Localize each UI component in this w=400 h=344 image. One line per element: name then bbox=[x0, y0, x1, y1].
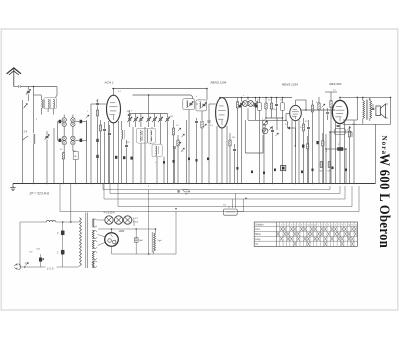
wire bbox=[345, 149, 347, 184]
trimmer capacitor bbox=[253, 98, 258, 121]
resistor box bbox=[73, 152, 78, 160]
text RENS 1254 bbox=[282, 82, 298, 86]
power transformer T6 primary bbox=[74, 218, 81, 268]
capacitor block bbox=[316, 141, 318, 144]
svg-text:4 V 0,35 A: 4 V 0,35 A bbox=[104, 212, 115, 215]
text ZF bbox=[29, 192, 50, 196]
wire bbox=[330, 132, 352, 184]
wire bbox=[62, 222, 64, 267]
capacitor bbox=[57, 250, 64, 254]
text W 600 L Oberon bbox=[377, 154, 393, 249]
svg-text:6: 6 bbox=[335, 225, 336, 227]
svg-text:11: 11 bbox=[351, 225, 353, 227]
svg-text:0,1: 0,1 bbox=[257, 100, 260, 102]
svg-text:1M: 1M bbox=[280, 100, 283, 102]
loudspeaker bbox=[376, 104, 388, 118]
wire bbox=[353, 120, 355, 184]
resistor bbox=[263, 124, 265, 184]
wire bbox=[73, 145, 76, 151]
svg-text:470pF: 470pF bbox=[272, 108, 278, 111]
wire gang top bbox=[130, 113, 168, 115]
tube V2 legs bbox=[217, 126, 227, 184]
wire bbox=[325, 92, 337, 95]
output transformer T5 bbox=[363, 100, 372, 120]
tube V4 RES964 bbox=[332, 100, 347, 123]
svg-text:0,1: 0,1 bbox=[118, 91, 121, 93]
wire bbox=[247, 108, 249, 120]
connector B bbox=[178, 189, 191, 195]
capacitor bbox=[271, 126, 274, 184]
svg-text:3: 3 bbox=[325, 225, 326, 227]
wire bbox=[64, 115, 73, 118]
capacitor block bbox=[96, 155, 98, 158]
svg-text:1: 1 bbox=[318, 225, 319, 227]
wire bbox=[148, 108, 150, 114]
wire bbox=[64, 127, 73, 137]
dial lamp 1 bbox=[105, 216, 113, 224]
wire bbox=[34, 87, 58, 100]
wire bbox=[363, 97, 370, 100]
antenna plug connector bbox=[19, 85, 22, 88]
wire harness 5 bbox=[60, 184, 359, 212]
capacitor blocks L2 bbox=[59, 120, 83, 142]
resistor bbox=[318, 97, 320, 184]
trimmer capacitor bbox=[26, 89, 31, 94]
wire bbox=[326, 134, 334, 184]
capacitor bbox=[337, 125, 340, 126]
electrolytic capacitor bbox=[334, 148, 346, 151]
diode detector bbox=[263, 120, 273, 131]
svg-text:2 2 0: 2 2 0 bbox=[46, 266, 54, 270]
svg-text:6: 6 bbox=[294, 225, 295, 227]
tuning capacitor C6 bbox=[158, 114, 163, 128]
wire bbox=[58, 139, 87, 141]
svg-text:8μF: 8μF bbox=[139, 240, 143, 242]
text 470pF bbox=[272, 108, 278, 111]
wire bbox=[47, 109, 49, 112]
wire bbox=[46, 131, 48, 184]
resistor bbox=[62, 153, 64, 160]
wire bbox=[58, 122, 87, 141]
wire bbox=[98, 220, 135, 226]
wire bbox=[155, 229, 157, 233]
wire bbox=[58, 121, 87, 123]
wire anode top bbox=[112, 88, 207, 90]
fuse bbox=[37, 248, 45, 268]
svg-text:ACH 1: ACH 1 bbox=[104, 81, 114, 85]
mains switch bbox=[24, 263, 29, 268]
wire bbox=[148, 190, 150, 255]
svg-text:11: 11 bbox=[311, 225, 313, 227]
screen cap bbox=[103, 122, 106, 184]
svg-text:c: c bbox=[243, 95, 244, 97]
resistor bbox=[322, 133, 324, 184]
wire bbox=[151, 127, 153, 128]
svg-text:0,1: 0,1 bbox=[333, 90, 336, 92]
tuning capacitor C7 bbox=[165, 114, 170, 128]
tube V3 legs bbox=[292, 119, 299, 184]
svg-text:8: 8 bbox=[342, 225, 343, 227]
grid leak box bbox=[335, 129, 346, 135]
capacitor block bbox=[115, 156, 132, 159]
svg-text:RENS 1294: RENS 1294 bbox=[211, 80, 227, 84]
coil L0 bbox=[41, 100, 45, 109]
potentiometer bbox=[223, 194, 243, 216]
wire bbox=[112, 246, 177, 254]
bus bbox=[13, 183, 376, 185]
wire bbox=[332, 109, 335, 111]
table labels bbox=[255, 223, 264, 245]
resistor bbox=[236, 98, 238, 184]
wire bbox=[22, 86, 57, 88]
svg-text:12: 12 bbox=[355, 225, 357, 227]
text ACH 1 bbox=[104, 81, 114, 85]
wire bbox=[247, 98, 249, 100]
resistor bbox=[265, 98, 267, 119]
wire bbox=[63, 159, 65, 184]
wire harness 1 bbox=[103, 184, 330, 190]
tube V2 RENS1294 bbox=[216, 98, 229, 128]
wire bbox=[144, 127, 146, 184]
mains choke bbox=[42, 220, 75, 222]
svg-text:7: 7 bbox=[298, 225, 299, 227]
text lamp rating bbox=[104, 212, 115, 215]
junction dots bbox=[33, 183, 355, 184]
wire bbox=[22, 100, 24, 184]
wire bbox=[295, 121, 297, 184]
rectifier tube V5 bbox=[105, 233, 119, 247]
text 220 bbox=[46, 266, 54, 270]
svg-text:2M: 2M bbox=[169, 116, 173, 118]
IF transformer T1 bbox=[137, 128, 148, 143]
tube V1 ACH1 bbox=[107, 95, 121, 123]
wire bbox=[75, 160, 77, 184]
capacitor block bbox=[163, 158, 209, 164]
wire bbox=[339, 124, 341, 184]
wire bbox=[27, 87, 29, 90]
value labels bbox=[35, 90, 364, 207]
wire bbox=[135, 229, 137, 254]
svg-text:RENS 1254: RENS 1254 bbox=[282, 82, 298, 86]
svg-text:5: 5 bbox=[332, 225, 333, 227]
wire bbox=[363, 119, 370, 125]
wire bbox=[375, 124, 377, 183]
wire bbox=[206, 89, 208, 100]
trimmer capacitor bbox=[45, 134, 50, 139]
coil L1 bbox=[44, 98, 57, 109]
grid cap C bbox=[96, 99, 106, 110]
wire bbox=[339, 97, 341, 100]
svg-text:4: 4 bbox=[288, 225, 289, 227]
coil L2 band filter bbox=[62, 118, 75, 145]
switch contact bbox=[347, 127, 351, 131]
capacitor 50u bbox=[127, 110, 131, 119]
svg-text:5: 5 bbox=[291, 225, 292, 227]
svg-text:3: 3 bbox=[284, 225, 285, 227]
svg-text:2: 2 bbox=[321, 225, 322, 227]
wire bbox=[132, 127, 134, 184]
capacitor bbox=[173, 147, 176, 184]
text 125 bbox=[29, 252, 33, 254]
resistor bbox=[201, 121, 203, 184]
IF transformer T4 bbox=[239, 101, 257, 108]
svg-text:10: 10 bbox=[307, 225, 309, 227]
capacitor blocks right bbox=[236, 167, 347, 175]
table X marks bbox=[277, 225, 357, 246]
wire grid return bbox=[288, 121, 296, 147]
dial lamp 3 bbox=[123, 216, 131, 224]
wire bbox=[98, 235, 106, 237]
tuning capacitor C2 bbox=[133, 114, 138, 128]
wire bbox=[245, 120, 263, 153]
text RENS 1294 bbox=[211, 80, 227, 84]
table grid bbox=[254, 222, 357, 246]
wire bbox=[91, 104, 96, 184]
svg-text:9: 9 bbox=[345, 225, 346, 227]
wire bbox=[186, 120, 188, 184]
text 1 4 bbox=[24, 130, 28, 134]
wire bbox=[33, 87, 35, 134]
mains plug bbox=[14, 263, 20, 270]
IF transformer T3 bbox=[152, 144, 162, 156]
switch contact bbox=[86, 115, 89, 118]
resistor box bbox=[258, 98, 262, 184]
resistor box bbox=[281, 98, 285, 184]
capacitor bbox=[326, 108, 329, 120]
resistor bbox=[320, 162, 324, 173]
bypass capacitor bbox=[108, 125, 111, 184]
capacitor bbox=[233, 144, 236, 184]
filter capacitor bbox=[134, 238, 143, 242]
wire bbox=[154, 212, 176, 255]
svg-text:Lang: Lang bbox=[255, 239, 261, 241]
text RGN 1064 bbox=[119, 229, 125, 233]
junction dots 2 bbox=[33, 86, 392, 255]
switch contact bbox=[203, 124, 206, 127]
tuning capacitor C1 bbox=[127, 114, 132, 128]
wire bbox=[20, 222, 42, 267]
svg-text:Nora: Nora bbox=[380, 136, 388, 156]
tuning capacitor C5 bbox=[152, 114, 157, 128]
resistor bbox=[96, 110, 98, 184]
wire bbox=[53, 128, 55, 184]
resistor bbox=[307, 136, 309, 184]
wire bbox=[390, 97, 392, 124]
svg-text:1M: 1M bbox=[232, 137, 235, 139]
tube V3 RENS1254 bbox=[290, 105, 302, 120]
svg-text:1: 1 bbox=[277, 225, 278, 227]
wire bbox=[167, 127, 169, 184]
tuning capacitor C3 bbox=[139, 114, 144, 128]
svg-text:0,1: 0,1 bbox=[285, 124, 288, 126]
resistor bbox=[99, 120, 101, 184]
tube V4 legs bbox=[336, 121, 345, 184]
power transformer core bbox=[86, 213, 88, 269]
wire bbox=[163, 157, 165, 184]
text lamp rating 2 bbox=[133, 217, 138, 224]
switch contact bbox=[322, 104, 326, 184]
tube V1 legs bbox=[109, 121, 119, 184]
resistor R grid bbox=[311, 100, 313, 184]
IF can B bbox=[196, 100, 207, 111]
resistor bbox=[229, 133, 231, 184]
resistor bbox=[270, 98, 272, 119]
wire harness 4 bbox=[118, 184, 352, 207]
grid wire bbox=[208, 104, 216, 184]
svg-text:1 4: 1 4 bbox=[24, 130, 28, 134]
field coil choke bbox=[152, 232, 162, 253]
wire bbox=[113, 123, 115, 184]
ground bbox=[10, 184, 16, 191]
wire bbox=[98, 229, 156, 233]
wire harness 3 bbox=[104, 184, 345, 200]
svg-text:4,5 V: 4,5 V bbox=[133, 217, 138, 220]
svg-text:0,1: 0,1 bbox=[176, 125, 179, 127]
wire bbox=[343, 97, 357, 120]
wire bbox=[159, 127, 161, 144]
coupling capacitor bbox=[307, 120, 310, 184]
resistor bbox=[177, 135, 179, 184]
wire bbox=[266, 117, 283, 119]
wire top bus 2 bbox=[220, 97, 292, 99]
oscillator coil bbox=[122, 121, 125, 184]
wire bbox=[63, 145, 66, 152]
potentiometer 2 bbox=[262, 128, 268, 134]
power transformer T6 secondaries bbox=[92, 219, 97, 268]
resistor bbox=[172, 120, 174, 184]
wire bbox=[188, 110, 190, 184]
wire harness 2 bbox=[110, 184, 340, 194]
capacitor block bbox=[302, 145, 304, 148]
resistor bbox=[330, 95, 332, 184]
capacitor bbox=[275, 98, 278, 119]
wire bbox=[70, 184, 72, 223]
wire bbox=[98, 243, 106, 246]
svg-text:Schalter: Schalter bbox=[255, 223, 264, 226]
trimmer capacitor bbox=[239, 98, 244, 184]
svg-text:10: 10 bbox=[348, 225, 350, 227]
padder capacitor bbox=[125, 140, 128, 184]
wire bbox=[221, 97, 223, 99]
volume control bbox=[281, 166, 286, 171]
svg-text:9: 9 bbox=[305, 225, 306, 227]
svg-text:4: 4 bbox=[328, 225, 329, 227]
wire bbox=[196, 103, 198, 105]
wire bbox=[27, 94, 29, 101]
svg-text:7: 7 bbox=[338, 225, 339, 227]
wire bbox=[148, 95, 150, 108]
svg-text:12: 12 bbox=[314, 225, 316, 227]
wire bbox=[20, 266, 79, 268]
text RES 964 bbox=[329, 82, 341, 86]
svg-text:2: 2 bbox=[281, 225, 282, 227]
IF can A bbox=[183, 99, 195, 110]
capacitor bbox=[57, 231, 64, 235]
svg-text:Pot: Pot bbox=[223, 204, 226, 207]
switch contacts bbox=[178, 128, 185, 151]
band switch bbox=[24, 104, 28, 109]
svg-text:ZF = 523 kHz: ZF = 523 kHz bbox=[29, 192, 50, 196]
wire bbox=[41, 108, 53, 114]
wire bbox=[86, 120, 88, 184]
wire anode 3 bbox=[301, 100, 335, 110]
text Nora bbox=[380, 136, 388, 156]
wire bbox=[140, 143, 142, 183]
wire bbox=[201, 111, 203, 120]
svg-text:8: 8 bbox=[301, 225, 302, 227]
tuning capacitor C4 bbox=[146, 114, 151, 128]
wire bbox=[156, 157, 158, 184]
capacitor bbox=[195, 118, 198, 184]
svg-text:W 600 L Oberon: W 600 L Oberon bbox=[377, 154, 393, 249]
cathode resistor bbox=[348, 126, 350, 184]
wire bbox=[221, 128, 223, 184]
svg-text:RES 964: RES 964 bbox=[329, 82, 341, 86]
wire bbox=[14, 86, 18, 88]
wire bbox=[343, 123, 391, 125]
wire bbox=[150, 143, 152, 144]
svg-text:Mittel: Mittel bbox=[255, 233, 261, 236]
IF transformer T2 bbox=[147, 128, 155, 143]
dial lamp 2 bbox=[114, 216, 122, 224]
antenna bbox=[7, 68, 21, 87]
svg-text:TA: TA bbox=[255, 243, 258, 246]
wire bbox=[23, 136, 29, 140]
wire bbox=[296, 100, 307, 105]
wire bbox=[248, 114, 290, 121]
resistor bbox=[302, 118, 304, 184]
wire bbox=[113, 89, 115, 96]
wire top bus 3 bbox=[340, 96, 391, 98]
wire bbox=[275, 118, 278, 136]
svg-text:1064: 1064 bbox=[119, 229, 125, 233]
capacitor block bbox=[96, 139, 98, 142]
resistor bbox=[328, 162, 332, 173]
wire bbox=[133, 95, 193, 99]
resistor R2 zigzag bbox=[34, 134, 36, 184]
wire bbox=[372, 104, 375, 110]
